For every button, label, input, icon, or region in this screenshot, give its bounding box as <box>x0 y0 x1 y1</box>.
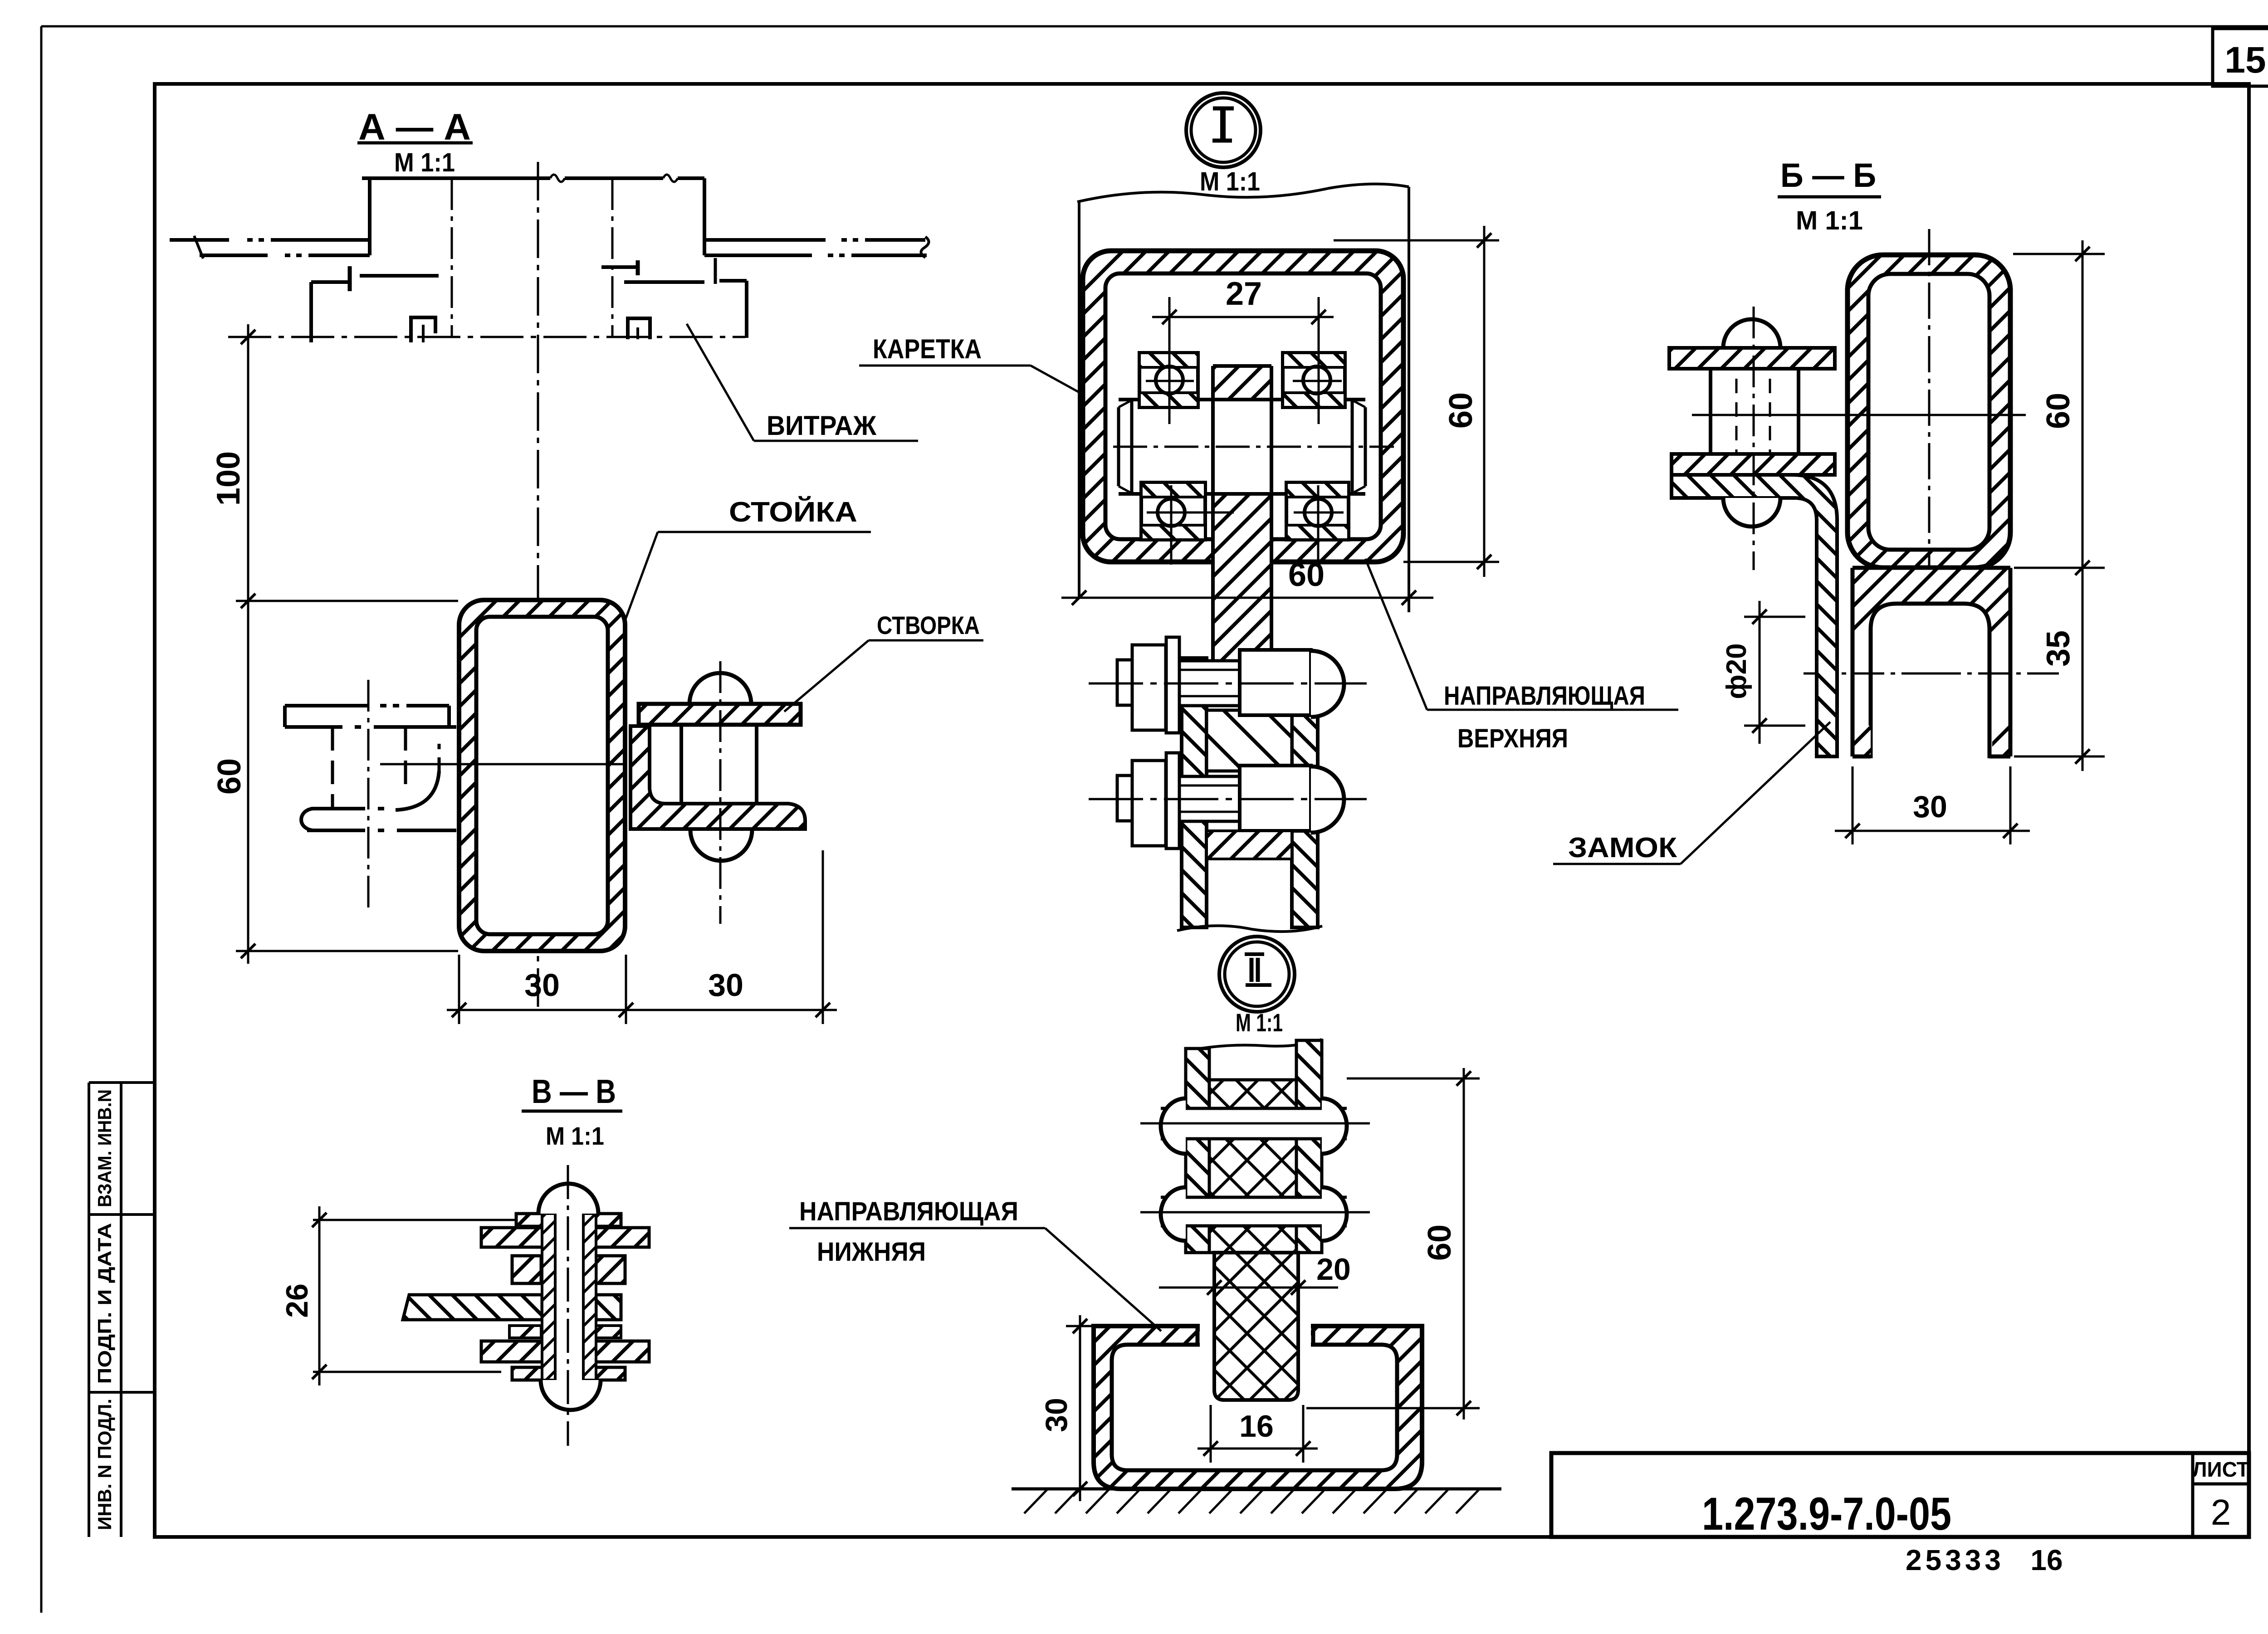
svg-text:ИНВ. N ПОДЛ.: ИНВ. N ПОДЛ. <box>94 1399 115 1530</box>
svg-text:НАПРАВЛЯЮЩАЯ: НАПРАВЛЯЮЩАЯ <box>1444 681 1645 711</box>
svg-text:2: 2 <box>2211 1492 2231 1532</box>
svg-text:1.273.9-7.0-05: 1.273.9-7.0-05 <box>1702 1488 1951 1540</box>
svg-text:СТОЙКА: СТОЙКА <box>729 496 857 528</box>
svg-text:15: 15 <box>2224 39 2266 81</box>
svg-text:100: 100 <box>210 451 247 506</box>
svg-text:В — В: В — В <box>532 1073 616 1110</box>
svg-text:30: 30 <box>1913 790 1947 824</box>
svg-text:ф20: ф20 <box>1721 643 1752 699</box>
svg-text:35: 35 <box>2040 630 2077 667</box>
svg-text:16: 16 <box>2030 1544 2063 1576</box>
svg-text:60: 60 <box>1288 557 1325 593</box>
svg-text:25333: 25333 <box>1906 1544 2004 1576</box>
svg-text:ВЗАМ. ИНВ.N: ВЗАМ. ИНВ.N <box>94 1089 115 1207</box>
svg-text:М 1:1: М 1:1 <box>1796 206 1863 235</box>
svg-text:М 1:1: М 1:1 <box>1236 1008 1283 1037</box>
svg-text:ЛИСТ: ЛИСТ <box>2192 1458 2249 1481</box>
svg-text:КАРЕТКА: КАРЕТКА <box>873 334 982 364</box>
svg-text:60: 60 <box>1422 1224 1458 1261</box>
svg-text:НИЖНЯЯ: НИЖНЯЯ <box>817 1237 926 1267</box>
svg-text:СТВОРКА: СТВОРКА <box>877 611 980 639</box>
svg-text:60: 60 <box>2040 393 2077 429</box>
svg-text:ВИТРАЖ: ВИТРАЖ <box>767 410 877 441</box>
svg-text:М 1:1: М 1:1 <box>394 148 455 177</box>
svg-text:НАПРАВЛЯЮЩАЯ: НАПРАВЛЯЮЩАЯ <box>799 1197 1018 1226</box>
svg-text:26: 26 <box>280 1283 314 1318</box>
svg-text:М 1:1: М 1:1 <box>546 1122 604 1150</box>
svg-text:60: 60 <box>1443 392 1479 429</box>
svg-text:М 1:1: М 1:1 <box>1200 167 1260 196</box>
svg-text:ПОДП. И ДАТА: ПОДП. И ДАТА <box>94 1223 115 1384</box>
svg-text:ВЕРХНЯЯ: ВЕРХНЯЯ <box>1457 724 1568 753</box>
svg-text:60: 60 <box>211 758 248 795</box>
svg-text:30: 30 <box>524 967 560 1003</box>
svg-text:Б — Б: Б — Б <box>1780 156 1876 194</box>
svg-text:30: 30 <box>708 967 743 1003</box>
svg-text:20: 20 <box>1316 1252 1351 1287</box>
svg-text:16: 16 <box>1239 1409 1274 1444</box>
svg-text:30: 30 <box>1039 1398 1074 1432</box>
svg-text:27: 27 <box>1226 276 1262 312</box>
svg-text:ЗАМОК: ЗАМОК <box>1568 832 1677 863</box>
